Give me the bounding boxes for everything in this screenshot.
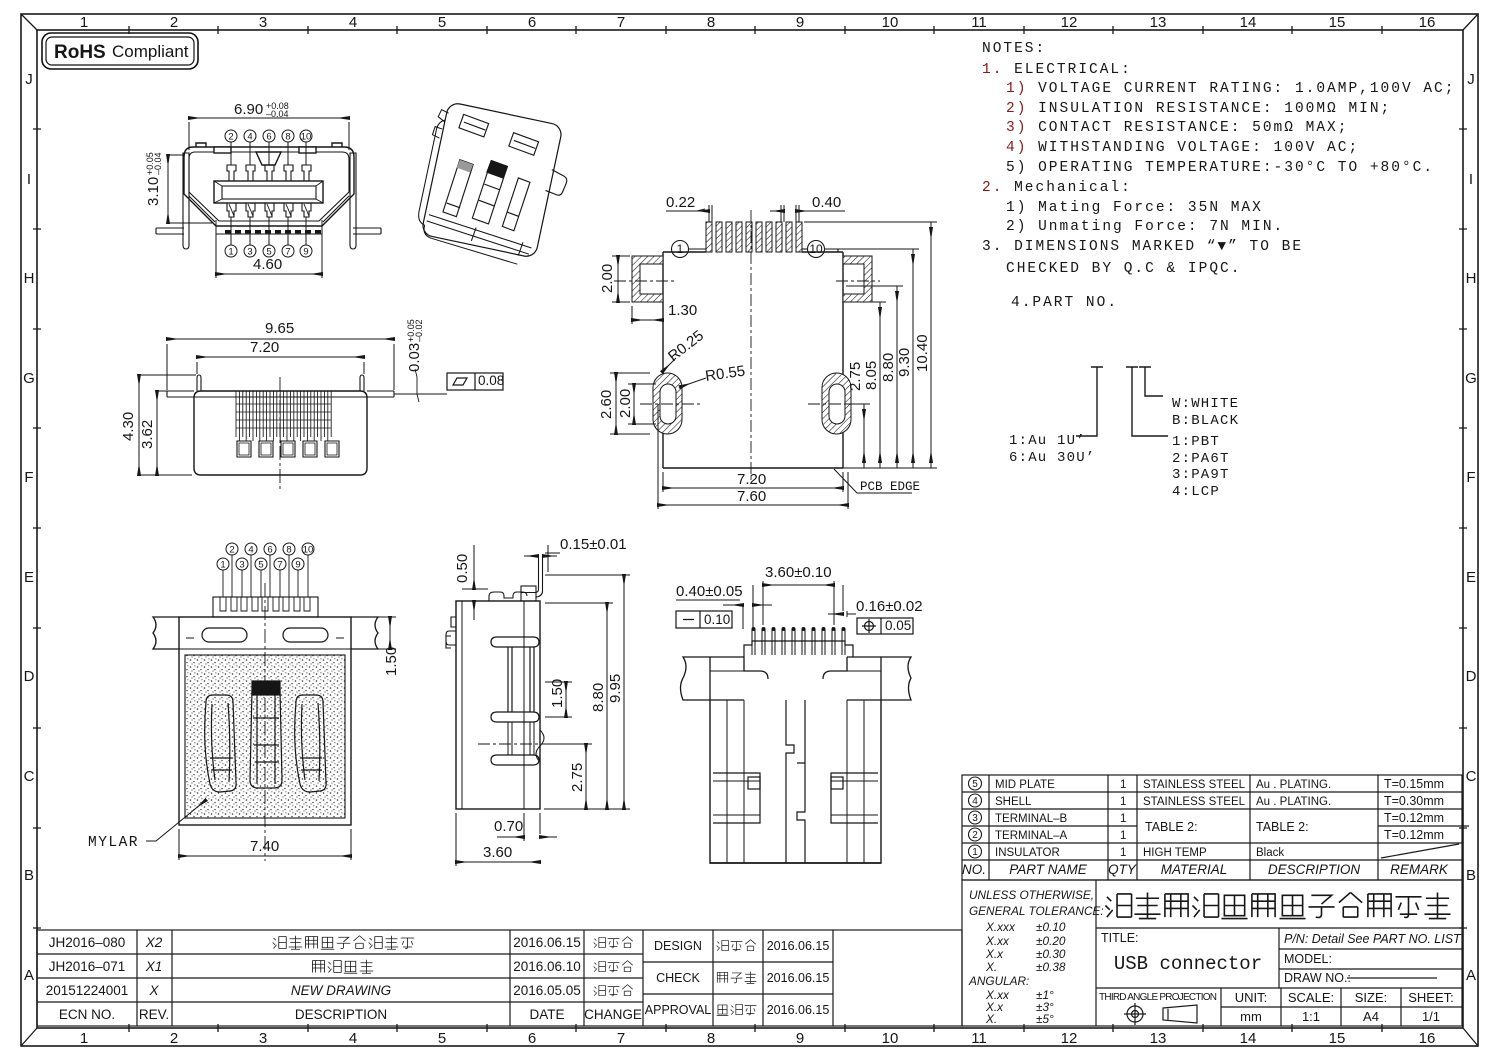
svg-text:DESCRIPTION: DESCRIPTION [1268, 862, 1361, 877]
svg-text:–0.04: –0.04 [153, 152, 163, 175]
top-left step [446, 617, 456, 648]
svg-text:MID PLATE: MID PLATE [995, 779, 1055, 791]
svg-text:1/1: 1/1 [1422, 1009, 1440, 1024]
svg-text:4: 4 [349, 1030, 357, 1047]
svg-text:3. DIMENSIONS MARKED “▼” TO BE: 3. DIMENSIONS MARKED “▼” TO BE [982, 239, 1303, 255]
svg-text:G: G [23, 370, 35, 387]
border column numbers bottom [80, 1030, 1436, 1047]
leader lines + circled pin numbers top [225, 130, 312, 165]
svg-text:2016.06.15: 2016.06.15 [767, 1003, 830, 1017]
svg-text:2: 2 [228, 132, 233, 143]
svg-text:4.30: 4.30 [120, 412, 137, 441]
svg-text:REV.: REV. [139, 1007, 169, 1022]
dim 8.80 / 9.95 [544, 575, 630, 809]
svg-text:12: 12 [1061, 1030, 1078, 1047]
svg-text:10: 10 [882, 1030, 899, 1047]
iso left tabs [432, 109, 449, 139]
svg-text:14: 14 [1240, 1030, 1257, 1047]
svg-text:INSULATOR: INSULATOR [995, 847, 1060, 859]
dim 3.10 [168, 155, 212, 223]
svg-text:13: 13 [1150, 14, 1167, 31]
svg-text:PCB EDGE: PCB EDGE [860, 480, 920, 494]
datum box 0.10 [676, 611, 732, 628]
feet [237, 441, 339, 457]
leaders to pins [223, 555, 308, 597]
svg-text:1: 1 [972, 847, 978, 858]
svg-text:8.05: 8.05 [863, 361, 880, 390]
svg-text:9: 9 [796, 14, 804, 31]
dim 7.20 [197, 357, 364, 374]
svg-text:SHEET:: SHEET: [1408, 990, 1454, 1005]
flatness frame [447, 373, 503, 390]
svg-text:TERMINAL–A: TERMINAL–A [995, 830, 1068, 842]
svg-text:Au . PLATING.: Au . PLATING. [1256, 796, 1331, 808]
svg-text:2.75: 2.75 [847, 362, 864, 391]
svg-text:4: 4 [247, 132, 252, 143]
svg-text:1:Au 1U’: 1:Au 1U’ [1009, 433, 1086, 449]
svg-text:0.16±0.02: 0.16±0.02 [856, 598, 923, 615]
svg-text:2: 2 [170, 14, 178, 31]
svg-text:10.40: 10.40 [914, 334, 931, 372]
svg-text:MYLAR: MYLAR [88, 835, 139, 851]
svg-text:2:PA6T: 2:PA6T [1172, 451, 1230, 467]
remark diagonal [1381, 844, 1459, 858]
svg-text:TITLE:: TITLE: [1101, 931, 1139, 945]
svg-text:2.75: 2.75 [569, 763, 586, 792]
svg-text:C: C [1466, 768, 1477, 785]
svg-text:8.80: 8.80 [880, 353, 897, 382]
svg-text:1. ELECTRICAL:: 1. ELECTRICAL: [982, 62, 1132, 78]
contacts: center [250, 681, 282, 788]
svg-text:T=0.15mm: T=0.15mm [1384, 777, 1444, 791]
svg-text:5) OPERATING TEMPERATURE:-30°C: 5) OPERATING TEMPERATURE:-30°C TO +80°C. [1006, 160, 1434, 176]
svg-text:1: 1 [80, 1030, 88, 1047]
svg-text:10: 10 [809, 242, 823, 256]
svg-text:5: 5 [972, 779, 978, 790]
pin stubs for dims [709, 205, 799, 222]
svg-text:I: I [1469, 171, 1473, 188]
svg-text:9: 9 [295, 560, 300, 571]
svg-text:7.60: 7.60 [737, 488, 766, 505]
svg-text:J: J [1467, 71, 1475, 88]
svg-text:6.90: 6.90 [234, 101, 263, 118]
svg-text:1: 1 [677, 242, 684, 256]
dim 1.50 [355, 617, 396, 649]
svg-text:5: 5 [438, 14, 446, 31]
svg-text:20151224001: 20151224001 [46, 983, 129, 998]
svg-text:D: D [24, 668, 35, 685]
svg-text:3: 3 [247, 247, 252, 258]
svg-text:4.PART NO.: 4.PART NO. [1011, 295, 1118, 311]
dim 7.40 [179, 829, 351, 860]
header block [744, 641, 853, 657]
svg-text:NOTES:: NOTES: [982, 41, 1046, 57]
wing slots [186, 628, 344, 642]
svg-text:3.60±0.10: 3.60±0.10 [765, 564, 832, 581]
svg-text:12: 12 [1061, 14, 1078, 31]
dim 4.30 [139, 375, 196, 475]
svg-text:1: 1 [220, 560, 225, 571]
svg-text:1: 1 [228, 247, 233, 258]
svg-text:2: 2 [229, 545, 234, 556]
svg-text:1:1: 1:1 [1302, 1009, 1320, 1024]
svg-text:±0.20: ±0.20 [1036, 934, 1066, 948]
svg-text:X1: X1 [145, 959, 163, 974]
svg-text:10: 10 [882, 14, 899, 31]
wings [153, 617, 378, 649]
svg-text:–0.04: –0.04 [266, 109, 289, 119]
iso right tab [545, 169, 568, 196]
svg-text:X: X [148, 983, 159, 998]
main body [710, 700, 881, 863]
svg-text:3: 3 [972, 813, 978, 824]
svg-text:3.10: 3.10 [145, 177, 162, 206]
svg-text:THIRD ANGLE PROJECTION: THIRD ANGLE PROJECTION [1099, 992, 1217, 1003]
left obround [653, 373, 682, 434]
svg-text:6: 6 [528, 1030, 536, 1047]
svg-text:0.10: 0.10 [704, 612, 730, 627]
svg-text:4: 4 [349, 14, 357, 31]
svg-text:B:BLACK: B:BLACK [1172, 413, 1239, 429]
svg-text:F: F [1466, 469, 1475, 486]
svg-text:7: 7 [277, 560, 282, 571]
svg-text:3: 3 [259, 1030, 267, 1047]
svg-text:MATERIAL: MATERIAL [1161, 862, 1228, 877]
svg-text:0.40: 0.40 [812, 194, 841, 211]
svg-text:–0.02: –0.02 [414, 319, 424, 342]
center channel with notches [786, 700, 805, 863]
svg-text:8: 8 [285, 132, 290, 143]
dim 2.60 / 2.00 obround [610, 373, 656, 434]
iso depth edges [416, 119, 447, 226]
side latches [713, 773, 878, 823]
svg-text:4.60: 4.60 [253, 256, 282, 273]
svg-text:E: E [1466, 569, 1476, 586]
svg-text:Compliant: Compliant [112, 42, 189, 61]
svg-text:C: C [24, 768, 35, 785]
svg-text:9: 9 [303, 247, 308, 258]
svg-text:W:WHITE: W:WHITE [1172, 396, 1239, 412]
svg-text:X.: X. [985, 1012, 997, 1026]
svg-text:3:PA9T: 3:PA9T [1172, 467, 1230, 483]
T=0.12 divider extension [1378, 825, 1469, 827]
svg-text:3) CONTACT RESISTANCE: 50mΩ MA: 3) CONTACT RESISTANCE: 50mΩ MAX; [1006, 120, 1348, 136]
svg-text:QTY: QTY [1108, 862, 1137, 877]
svg-text:1: 1 [1120, 779, 1126, 791]
svg-text:2) Unmating Force: 7N MIN.: 2) Unmating Force: 7N MIN. [1006, 219, 1284, 235]
pin comb hatched [706, 222, 802, 252]
dim 2.00 left top [612, 256, 630, 302]
svg-text:X.xx: X.xx [985, 934, 1010, 948]
svg-text:CHANGE: CHANGE [584, 1007, 642, 1022]
tolerance block text [968, 888, 1104, 1026]
svg-text:0.15±0.01: 0.15±0.01 [560, 536, 627, 553]
svg-text:I: I [27, 171, 31, 188]
border ticks right [1459, 129, 1467, 928]
wavy break right [536, 730, 544, 762]
svg-text:CHECKED BY Q.C & IPQC.: CHECKED BY Q.C & IPQC. [1006, 261, 1241, 277]
svg-text:10: 10 [301, 132, 312, 143]
svg-text:2.00: 2.00 [599, 264, 616, 293]
svg-text:7: 7 [617, 1030, 625, 1047]
dim 7.20 bottom [663, 472, 843, 492]
posts [197, 375, 364, 391]
svg-text:±0.10: ±0.10 [1036, 920, 1066, 934]
inner tabs [491, 637, 539, 765]
circled 10 [802, 241, 838, 258]
svg-text:2016.06.15: 2016.06.15 [513, 935, 581, 950]
svg-text:1) VOLTAGE CURRENT RATING: 1.0: 1) VOLTAGE CURRENT RATING: 1.0AMP,100V A… [1006, 81, 1455, 97]
parts table circled numbers [969, 777, 982, 858]
svg-text:9.65: 9.65 [265, 320, 294, 337]
dim 1.50 [545, 682, 572, 717]
body [456, 601, 540, 809]
svg-text:±0.38: ±0.38 [1036, 960, 1066, 974]
company name (stylized hanzi) 浙江虹穗精密电子有限公司 [1105, 892, 1450, 918]
svg-text:E: E [24, 569, 34, 586]
svg-text:STAINLESS STEEL: STAINLESS STEEL [1143, 796, 1246, 808]
pins row [752, 629, 845, 655]
svg-text:2.00: 2.00 [617, 389, 634, 418]
svg-text:2: 2 [972, 830, 978, 841]
svg-text:SHELL: SHELL [995, 796, 1032, 808]
dim 4.60 [216, 220, 322, 278]
centerlines [614, 210, 880, 480]
svg-text:DESIGN: DESIGN [654, 939, 702, 953]
svg-text:1) Mating Force: 35N MAX: 1) Mating Force: 35N MAX [1006, 200, 1263, 216]
svg-text:TERMINAL–B: TERMINAL–B [995, 813, 1068, 825]
right stack dims [804, 222, 937, 468]
svg-text:1: 1 [1120, 813, 1126, 825]
svg-text:Black: Black [1256, 847, 1284, 859]
circled numbers row upper 2,4,6,8,10 [217, 543, 314, 570]
svg-text:DATE: DATE [529, 1007, 564, 1022]
parts table grid [962, 775, 1462, 880]
svg-text:3: 3 [259, 14, 267, 31]
svg-text:D: D [1466, 668, 1477, 685]
svg-text:2. Mechanical:: 2. Mechanical: [982, 180, 1132, 196]
svg-text:UNIT:: UNIT: [1235, 990, 1268, 1005]
svg-text:10: 10 [303, 545, 314, 556]
svg-text:2016.05.05: 2016.05.05 [513, 983, 581, 998]
svg-text:T=0.30mm: T=0.30mm [1384, 794, 1444, 808]
svg-text:NEW DRAWING: NEW DRAWING [291, 983, 391, 998]
svg-text:PART NAME: PART NAME [1009, 862, 1088, 877]
svg-text:DESCRIPTION: DESCRIPTION [295, 1007, 387, 1022]
pins bottom row [227, 203, 311, 217]
dim 0.50 [462, 545, 488, 620]
svg-text:7.20: 7.20 [737, 471, 766, 488]
dim 1.30 [632, 306, 663, 324]
svg-text:16: 16 [1419, 14, 1436, 31]
svg-text:X2: X2 [145, 935, 163, 950]
svg-text:6:Au 30U’: 6:Au 30U’ [1009, 450, 1095, 466]
svg-text:X.xxx: X.xxx [985, 920, 1016, 934]
dim 3.60 [456, 813, 540, 866]
svg-text:2016.06.15: 2016.06.15 [767, 939, 830, 953]
border row letters left [23, 71, 35, 984]
svg-text:T=0.12mm: T=0.12mm [1384, 811, 1444, 825]
svg-text:0.22: 0.22 [666, 194, 695, 211]
svg-text:SIZE:: SIZE: [1355, 990, 1388, 1005]
teeth row [225, 230, 321, 233]
svg-text:H: H [24, 270, 35, 287]
dim 7.60 [658, 404, 848, 509]
centerline [264, 583, 266, 861]
svg-text:7: 7 [617, 14, 625, 31]
svg-text:X.x: X.x [985, 947, 1004, 961]
svg-text:1: 1 [1120, 830, 1126, 842]
svg-text:mm: mm [1240, 1009, 1262, 1024]
PCB EDGE [834, 469, 912, 493]
svg-text:8: 8 [286, 545, 291, 556]
centerline [279, 377, 281, 489]
svg-text:4) WITHSTANDING VOLTAGE: 100V: 4) WITHSTANDING VOLTAGE: 100V AC; [1006, 140, 1359, 156]
pin diagonal marks [229, 204, 309, 216]
revision hanzi 新增规格 [313, 960, 374, 974]
svg-text:UNLESS OTHERWISE,: UNLESS OTHERWISE, [969, 888, 1094, 902]
dim 0.70 [497, 813, 557, 841]
svg-text:H: H [1466, 270, 1477, 287]
svg-text:4:LCP: 4:LCP [1172, 484, 1220, 500]
svg-text:USB connector: USB connector [1114, 953, 1262, 975]
contacts: left claw [205, 695, 236, 792]
svg-text:T=0.12mm: T=0.12mm [1384, 828, 1444, 842]
svg-text:1.50: 1.50 [383, 647, 400, 676]
svg-text:A4: A4 [1363, 1009, 1379, 1024]
svg-text:2: 2 [170, 1030, 178, 1047]
centerline [478, 743, 592, 745]
dim 6.90 [189, 118, 349, 150]
svg-text:0.70: 0.70 [494, 818, 523, 835]
svg-text:B: B [1466, 867, 1476, 884]
svg-text:16: 16 [1419, 1030, 1436, 1047]
svg-text:SCALE:: SCALE: [1288, 990, 1334, 1005]
svg-text:3: 3 [239, 560, 244, 571]
svg-text:APPROVAL: APPROVAL [645, 1003, 712, 1017]
svg-text:MODEL:: MODEL: [1284, 952, 1332, 966]
svg-text:1: 1 [1120, 847, 1126, 859]
svg-text:±5°: ±5° [1036, 1012, 1054, 1026]
dim 9.65 [167, 339, 394, 390]
svg-text:TABLE 2:: TABLE 2: [1256, 820, 1309, 834]
bevel double lines lower corners [189, 196, 349, 222]
svg-text:1: 1 [1120, 796, 1126, 808]
revision hanzi 随工程图上升版本次 [273, 936, 415, 950]
body outline [663, 252, 843, 468]
RoHS badge [42, 33, 198, 69]
body with mylar [179, 617, 351, 825]
svg-text:TABLE 2:: TABLE 2: [1145, 820, 1198, 834]
svg-text:ANGULAR:: ANGULAR: [968, 974, 1029, 988]
border ticks left [33, 129, 41, 928]
design/check/approval names [717, 940, 757, 1016]
svg-text:2) INSULATION RESISTANCE: 100M: 2) INSULATION RESISTANCE: 100MΩ MIN; [1006, 101, 1391, 117]
svg-text:4: 4 [972, 796, 978, 807]
svg-text:A: A [24, 967, 34, 984]
tongue outer/inner [214, 181, 323, 203]
svg-text:14: 14 [1240, 14, 1257, 31]
svg-text:8.80: 8.80 [590, 683, 607, 712]
svg-text:3.60: 3.60 [483, 844, 512, 861]
svg-text:NO.: NO. [962, 862, 986, 877]
svg-text:2016.06.10: 2016.06.10 [513, 959, 581, 974]
svg-text:GENERAL TOLERANCE:: GENERAL TOLERANCE: [969, 904, 1104, 918]
pin comb [236, 391, 339, 457]
iso body outline [421, 102, 563, 259]
top center trapezoid notch [256, 152, 281, 165]
svg-text:JH2016–080: JH2016–080 [49, 935, 126, 950]
svg-text:Au . PLATING.: Au . PLATING. [1256, 779, 1331, 791]
pin header [213, 597, 318, 617]
circled 1 [672, 241, 707, 258]
svg-text:6: 6 [528, 14, 536, 31]
svg-text:0.03: 0.03 [406, 343, 423, 372]
wings [167, 391, 394, 397]
side legs [183, 153, 356, 249]
svg-text:13: 13 [1150, 1030, 1167, 1047]
svg-text:6: 6 [267, 545, 272, 556]
svg-text:9: 9 [796, 1030, 804, 1047]
change col names 陈少兵 x3 [594, 937, 633, 996]
contacts: right claw [295, 695, 326, 792]
svg-text:1: 1 [80, 14, 88, 31]
iso slots [443, 159, 474, 218]
svg-text:5: 5 [438, 1030, 446, 1047]
svg-text:1.30: 1.30 [668, 302, 697, 319]
shell outline [184, 147, 354, 226]
svg-text:G: G [1465, 370, 1477, 387]
position box 0.05 [857, 618, 913, 634]
svg-text:F: F [24, 469, 33, 486]
iso top cutouts [458, 114, 489, 137]
svg-text:±0.30: ±0.30 [1036, 947, 1066, 961]
svg-text:1.50: 1.50 [549, 679, 566, 708]
svg-text:7.20: 7.20 [250, 339, 279, 356]
svg-text:RoHS: RoHS [54, 42, 106, 63]
border column numbers top [80, 14, 1436, 31]
bottom wires [156, 228, 381, 234]
svg-text:0.05: 0.05 [885, 618, 911, 633]
svg-text:0.50: 0.50 [454, 554, 471, 583]
dim 0.03 [394, 369, 447, 402]
svg-text:3.62: 3.62 [139, 420, 156, 449]
dim 3.62 [157, 391, 192, 475]
body [194, 391, 367, 475]
svg-text:J: J [25, 71, 33, 88]
left hatched channel [632, 256, 663, 302]
svg-text:1:PBT: 1:PBT [1172, 434, 1220, 450]
pins top row [227, 165, 311, 217]
right obround [822, 373, 851, 434]
svg-text:STAINLESS STEEL: STAINLESS STEEL [1143, 779, 1246, 791]
svg-text:4: 4 [248, 545, 253, 556]
svg-text:9.95: 9.95 [607, 674, 624, 703]
svg-text:11: 11 [971, 1030, 987, 1047]
border ticks bottom [129, 1024, 1382, 1032]
leader lines + circled pin numbers bottom [225, 217, 312, 257]
right hatched channel [843, 256, 872, 302]
iso slot tips [486, 160, 507, 178]
wings [681, 657, 912, 700]
svg-text:REMARK: REMARK [1390, 862, 1449, 877]
svg-text:7: 7 [285, 247, 290, 258]
svg-text:0.40±0.05: 0.40±0.05 [676, 583, 743, 600]
top notches [214, 147, 231, 153]
svg-text:7.40: 7.40 [250, 838, 279, 855]
top pin bent [489, 556, 543, 601]
svg-text:9.30: 9.30 [896, 348, 913, 377]
